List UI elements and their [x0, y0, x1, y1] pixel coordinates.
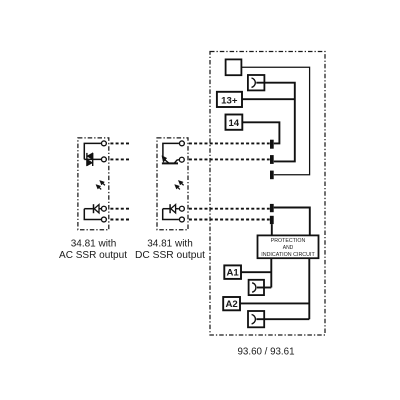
LED diode D2 (DC module input): [163, 204, 179, 219]
LED light arrows (AC module indicator): [96, 180, 105, 189]
socket pin 3: [270, 171, 274, 180]
socket contact arc: [252, 315, 256, 324]
svg-text:14: 14: [228, 118, 239, 129]
socket contact box (top indicator): [248, 75, 265, 90]
top blank box: [226, 59, 242, 75]
LED light arrows (DC module indicator): [175, 180, 184, 189]
wire: contact to node: [257, 287, 271, 289]
wire: pin 4 to protection circuit: [274, 208, 310, 236]
wire: DC top feed from terminal 1: [163, 143, 179, 157]
wire: 14 to pin 1: [242, 122, 279, 143]
socket pin 1: [270, 140, 274, 149]
terminal box 14: [226, 115, 243, 130]
socket pin 2: [270, 155, 274, 164]
wire: A1 to node: [241, 271, 271, 273]
module 34.81 DC SSR: enclosure dash-dot box: [157, 138, 188, 230]
socket pin 5: [270, 216, 274, 224]
wire: contact to node: [256, 318, 309, 320]
svg-text:93.60 / 93.61: 93.60 / 93.61: [238, 347, 295, 358]
svg-text:A2: A2: [225, 299, 237, 310]
terminal box 13+: [217, 92, 242, 107]
svg-text:PROTECTION: PROTECTION: [271, 238, 306, 244]
wire: protection box to A1 node and contact 2: [270, 258, 272, 287]
terminal circle AC in 2: [101, 217, 106, 222]
socket 93.60/93.61: enclosure dash-dot box: [210, 52, 325, 336]
wire: AC triac output line: [84, 158, 101, 160]
svg-text:INDICATION CIRCUIT: INDICATION CIRCUIT: [261, 252, 315, 258]
wire: AC top feed from terminal 1: [84, 143, 101, 159]
socket contact box (A2 indicator): [248, 311, 264, 327]
terminal circle DC in 1: [179, 206, 184, 211]
terminal box A2: [223, 297, 240, 310]
dashed plug-in wires DC module to socket pins: [189, 143, 270, 219]
socket contact arc: [252, 78, 256, 87]
module 34.81 AC SSR: enclosure dash-dot box: [78, 138, 109, 230]
transistor Q1 (DC SSR output): [162, 156, 179, 164]
terminal circle AC out 1: [101, 141, 106, 146]
wire: A2 to node: [240, 302, 309, 304]
protection and indication circuit box: [258, 235, 319, 258]
socket contact arc: [252, 283, 256, 292]
terminal circle AC in 1: [101, 206, 106, 211]
wire: blank box to pin 3 (thin): [241, 67, 309, 175]
triac V1 (AC SSR output): [87, 153, 93, 166]
wire: protection box to A2 node and contact 3: [308, 258, 310, 319]
wire: 13+ to vertical bus: [242, 98, 295, 100]
wire: pin 5 to protection circuit: [271, 224, 273, 235]
terminal box A1: [224, 265, 241, 279]
socket pin 4: [270, 204, 274, 212]
svg-text:DC SSR output: DC SSR output: [135, 250, 205, 261]
svg-text:34.81 with: 34.81 with: [71, 239, 117, 250]
LED diode D1 (AC module input): [84, 204, 101, 219]
dashed stub wires (AC module, unplugged): [110, 143, 129, 219]
svg-text:A1: A1: [226, 268, 239, 279]
svg-text:AC SSR output: AC SSR output: [59, 250, 127, 261]
svg-text:13+: 13+: [221, 95, 238, 106]
terminal circle AC out 2: [101, 157, 106, 162]
wire: contact to pin 2: [256, 83, 295, 162]
terminal circle DC in 2: [179, 217, 184, 222]
terminal circle DC out 1: [179, 141, 184, 146]
svg-text:34.81 with: 34.81 with: [147, 239, 193, 250]
terminal circle DC out 2: [179, 157, 184, 162]
socket contact box (A1 indicator): [249, 280, 264, 295]
svg-text:AND: AND: [283, 245, 294, 251]
